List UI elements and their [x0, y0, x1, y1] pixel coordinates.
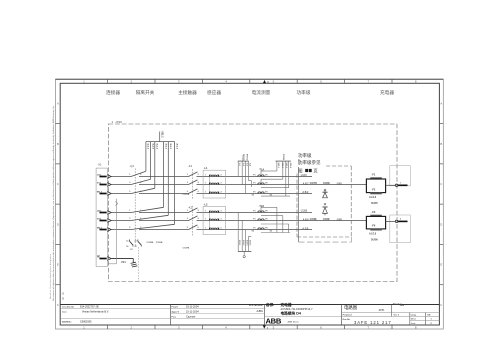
svg-text:1: 1 [205, 175, 206, 177]
svg-text:X22:3: X22:3 [285, 163, 287, 169]
L1 winding [210, 175, 219, 176]
K1 pole 3 [189, 189, 198, 194]
aux contact 21-22 [137, 240, 139, 242]
svg-text:P2: P2 [265, 219, 267, 221]
L1 winding [210, 183, 219, 184]
svg-text:CO/7B: CO/7B [310, 183, 317, 185]
svg-text:-K1: -K1 [188, 164, 193, 168]
svg-text:-X21:1: -X21:1 [160, 131, 162, 139]
wire tap 2L3 [174, 142, 176, 225]
svg-text:L13.5: L13.5 [301, 175, 308, 177]
svg-text:EP51: EP51 [379, 310, 385, 312]
svg-text:Prepared: Prepared [343, 314, 353, 317]
svg-text:CO/5B: CO/5B [244, 153, 246, 160]
svg-text:Sheet: Sheet [411, 318, 417, 321]
svg-text:-OSU: -OSU [115, 120, 122, 124]
wire tap 1L3 [154, 142, 156, 189]
svg-text:功率级: 功率级 [298, 152, 312, 159]
revision triangle top [263, 80, 266, 83]
output wire 1 [386, 184, 396, 186]
svg-text:F: F [440, 303, 442, 307]
svg-text:Apprv'd: Apprv'd [172, 311, 180, 314]
svg-text:X22:1: X22:1 [277, 163, 279, 169]
svg-text:电路模块 D4: 电路模块 D4 [281, 311, 302, 316]
svg-text:Cust: Cust [62, 311, 67, 314]
svg-text:Toni Jansson: Toni Jansson [248, 304, 263, 307]
svg-text:CO/5B: CO/5B [147, 242, 154, 244]
revision triangle bottom [263, 326, 266, 329]
power stage PE collector wire [298, 167, 300, 242]
svg-text:X23:1: X23:1 [238, 240, 240, 246]
svg-text:3: 3 [187, 218, 188, 220]
svg-text:ABOM.No: ABOM.No [62, 320, 72, 323]
svg-text:A.B.2: A.B.2 [302, 191, 309, 194]
svg-text:A.3.B: A.3.B [302, 227, 308, 230]
svg-text:-F1: -F1 [372, 173, 376, 176]
svg-text:CO/8C: CO/8C [323, 183, 330, 185]
svg-text:G: G [62, 293, 64, 296]
svg-text:X22:4: X22:4 [289, 163, 292, 169]
svg-text:-PE1: -PE1 [121, 262, 127, 264]
svg-text:C5805335: C5805335 [80, 320, 92, 323]
CT primary [258, 219, 261, 221]
svg-text:2: 2 [221, 219, 222, 221]
svg-text:名称:: 名称: [266, 302, 275, 307]
svg-text:1: 1 [205, 219, 206, 221]
svg-text:X23:2: X23:2 [242, 240, 244, 246]
reactor -L1 [203, 170, 226, 198]
output cable marker 1 [390, 166, 411, 186]
svg-text:P1: P1 [253, 219, 255, 221]
svg-text:感应器: 感应器 [207, 89, 221, 96]
dashed link below aux [137, 247, 139, 281]
frame zone ticks left/right [56, 123, 61, 125]
svg-text:P1: P1 [253, 192, 255, 194]
svg-text:6: 6 [140, 191, 141, 193]
L2 winding [210, 228, 219, 229]
K2 pole 3 [189, 225, 198, 230]
svg-text:ACS800-70LC0650HP14.7: ACS800-70LC0650HP14.7 [281, 308, 314, 311]
svg-text:1L3.1: 1L3.1 [156, 143, 158, 149]
svg-text:X23:3: X23:3 [246, 240, 248, 246]
CT primary [258, 183, 261, 185]
svg-text:2L1.1: 2L1.1 [164, 143, 166, 149]
svg-text:-F2: -F2 [372, 188, 376, 191]
terminal block -X1 [96, 168, 107, 266]
svg-text:A: A [440, 102, 442, 106]
svg-text:连接器: 连接器 [106, 89, 120, 96]
svg-text:6: 6 [198, 191, 199, 193]
svg-text:2L2.1: 2L2.1 [169, 143, 171, 149]
svg-text:1: 1 [205, 192, 206, 194]
tap wires to measurement top [237, 161, 239, 176]
switch pole 5 [131, 215, 168, 220]
svg-text:P2: P2 [265, 211, 267, 213]
svg-text:2: 2 [221, 211, 222, 213]
wire tap 2L1 [163, 142, 165, 208]
svg-text:A1.E.8: A1.E.8 [369, 233, 377, 236]
svg-text:Cust.Doc.No: Cust.Doc.No [62, 306, 75, 309]
CT primary [258, 175, 261, 177]
varistor V2 [324, 213, 326, 215]
bus bar to -X21 [146, 141, 175, 143]
tap wires to measurement bottom [237, 213, 239, 252]
svg-text:-K2: -K2 [188, 205, 193, 209]
output wire 2 [386, 220, 396, 222]
svg-text:1: 1 [205, 183, 206, 185]
svg-text:充电器: 充电器 [281, 302, 292, 307]
svg-text:21: 21 [135, 241, 137, 243]
wire tap 1L2 [150, 142, 152, 180]
PE riser wire [116, 199, 118, 264]
CT primary [258, 211, 261, 213]
svg-text:We reserve all rights in this: We reserve all rights in this document a… [52, 105, 55, 301]
varistor V1 [324, 191, 326, 193]
svg-text:功率级参见: 功率级参见 [298, 159, 321, 166]
svg-text:D: D [440, 222, 442, 226]
svg-text:2: 2 [221, 192, 222, 194]
wire tap 2L2 [167, 142, 169, 216]
svg-text:2: 2 [198, 210, 199, 212]
aux contact 13-14 [129, 240, 131, 242]
wire PE collector run [299, 241, 352, 243]
svg-text:P2: P2 [265, 192, 267, 194]
measurement bus -X22 [276, 160, 291, 162]
svg-text:A.B.8: A.B.8 [303, 218, 310, 221]
K2 pole 1 [189, 208, 198, 213]
svg-text:SU/05: SU/05 [284, 153, 286, 160]
frame top outer emphasis [56, 78, 444, 80]
svg-text:2L3.1: 2L3.1 [175, 143, 177, 149]
svg-text:P1: P1 [253, 183, 255, 185]
switch pole 1 [131, 171, 146, 176]
fuse module box F3/F4 [366, 216, 385, 229]
svg-text:3: 3 [129, 218, 130, 220]
svg-text:1: 1 [205, 211, 206, 213]
svg-text:P2: P2 [265, 183, 267, 185]
tap bus -X20 [238, 160, 249, 162]
svg-text:Cayman: Cayman [186, 315, 196, 318]
svg-text:电路图: 电路图 [344, 304, 358, 311]
switch pole 3 [131, 188, 155, 193]
svg-text:充电器: 充电器 [380, 89, 394, 96]
svg-text:L13.B: L13.B [301, 211, 308, 213]
svg-text:6: 6 [140, 227, 141, 229]
svg-text:隔离开关: 隔离开关 [136, 89, 155, 96]
svg-text:3: 3 [187, 182, 188, 184]
svg-text:2: 2 [400, 219, 401, 221]
svg-text:-F4: -F4 [372, 225, 376, 228]
svg-text:SU/05: SU/05 [371, 202, 378, 205]
svg-text:22: 22 [135, 246, 137, 248]
svg-text:Proj: Proj [172, 316, 176, 318]
tap bus -X23 [238, 250, 252, 252]
power stage dashed box [326, 165, 351, 167]
svg-text:1L1.1: 1L1.1 [147, 143, 149, 149]
svg-text:P2: P2 [265, 228, 267, 230]
frame zone ticks top/bottom [107, 79, 109, 83]
wire phase rows left section [111, 176, 131, 178]
enclosure -OSU dashed box [108, 124, 397, 282]
svg-text:C: C [440, 182, 442, 186]
svg-text:-L2: -L2 [204, 203, 208, 207]
CT primary [258, 192, 261, 194]
L2 winding [210, 219, 219, 220]
CT secondary wiring top [260, 171, 262, 175]
svg-text:2: 2 [198, 174, 199, 176]
K1 pole 2 [189, 180, 198, 185]
svg-text:-1W1: -1W1 [336, 184, 342, 186]
svg-text:SU/06: SU/06 [371, 238, 378, 241]
switch pole 2 [131, 179, 151, 184]
svg-text:16-11-2004: 16-11-2004 [186, 306, 199, 309]
svg-text:6: 6 [198, 227, 199, 229]
K1 pole 1 [189, 172, 198, 177]
svg-text:3: 3 [129, 182, 130, 184]
switch pole 6 [131, 224, 175, 229]
riser -X21 [159, 132, 161, 142]
wire phase rows middle section [197, 176, 313, 178]
svg-text:-1W2: -1W2 [336, 220, 342, 222]
svg-text:P1: P1 [253, 175, 255, 177]
svg-text:D: D [57, 222, 59, 226]
svg-text:Ver. 3: Ver. 3 [394, 314, 400, 317]
svg-text:B: B [57, 142, 59, 146]
K2 pole 2 [189, 216, 198, 221]
frame outer border [56, 79, 444, 329]
svg-text:C: C [57, 182, 59, 186]
svg-text:ABB (Hva): ABB (Hva) [288, 320, 299, 323]
wire PE [111, 258, 133, 260]
svg-text:P1: P1 [253, 211, 255, 213]
svg-text:Lang.: Lang. [411, 315, 417, 317]
svg-text:Vestas Netherlands B.V.: Vestas Netherlands B.V. [82, 311, 109, 314]
svg-text:B: B [440, 142, 442, 146]
svg-text:2: 2 [221, 183, 222, 185]
tap jog wire [247, 161, 249, 180]
L2 winding [210, 211, 219, 212]
svg-text:电流测量: 电流测量 [252, 89, 271, 96]
svg-text:3AFE 121 217: 3AFE 121 217 [354, 320, 392, 325]
reactor -L2 [203, 207, 226, 235]
svg-text:-Q1: -Q1 [130, 164, 135, 168]
svg-text:P1: P1 [253, 228, 255, 230]
svg-text:CO/6E: CO/6E [310, 219, 317, 221]
frame inner border [60, 83, 439, 325]
svg-text:ABB: ABB [266, 317, 282, 326]
svg-text:CO/7B: CO/7B [183, 247, 190, 249]
svg-text:15-11-2004: 15-11-2004 [186, 311, 199, 314]
switch pole 4 [131, 207, 164, 212]
fuse module box F1/F2 [366, 179, 385, 193]
title block [60, 304, 439, 306]
svg-text:CO/6A: CO/6A [156, 241, 163, 244]
svg-text:1: 1 [205, 228, 206, 230]
svg-text:X22:2: X22:2 [281, 163, 283, 169]
svg-text:Based on: Dimension drawing I: Based on: Dimension drawing Item designa… [49, 253, 52, 299]
svg-text:E: E [57, 263, 59, 267]
svg-text:-X1: -X1 [97, 163, 102, 167]
output cable marker 2 [390, 215, 411, 243]
svg-text:功率级: 功率级 [296, 89, 310, 96]
svg-text:D: D [62, 298, 64, 301]
svg-text:-F3: -F3 [372, 211, 376, 214]
svg-text:13: 13 [126, 241, 128, 243]
svg-text:AJBG: AJBG [256, 310, 263, 313]
svg-text:-L1: -L1 [204, 166, 208, 170]
svg-text:A.B.7: A.B.7 [303, 182, 310, 185]
svg-text:1L2.1: 1L2.1 [151, 143, 153, 149]
svg-text:814-2002767-JB: 814-2002767-JB [80, 306, 99, 309]
svg-text:主接触器: 主接触器 [178, 89, 197, 96]
svg-text:2: 2 [140, 210, 141, 212]
svg-text:A1.E.8: A1.E.8 [369, 196, 377, 199]
svg-text:E: E [440, 263, 442, 267]
CT secondary wiring bottom [260, 207, 262, 211]
svg-text:Prep'd: Prep'd [172, 307, 179, 309]
svg-text:2: 2 [221, 228, 222, 230]
svg-text:2: 2 [221, 175, 222, 177]
svg-text:P2: P2 [265, 175, 267, 177]
svg-text:Cont.: Cont. [411, 322, 416, 325]
CT primary [258, 228, 261, 230]
svg-text:Doc.No: Doc.No [343, 319, 351, 321]
svg-text:CO/7B: CO/7B [183, 194, 190, 196]
svg-text:X23:4: X23:4 [249, 240, 252, 246]
svg-text:CO/8F: CO/8F [323, 219, 330, 221]
svg-text:2: 2 [140, 174, 141, 176]
svg-text:+04: +04 [400, 303, 405, 307]
L1 winding [210, 192, 219, 193]
svg-text:A: A [57, 102, 59, 106]
wire tap 1L1 [145, 142, 147, 172]
svg-text:F: F [57, 303, 59, 307]
svg-text:CO/6A: CO/6A [246, 153, 249, 160]
